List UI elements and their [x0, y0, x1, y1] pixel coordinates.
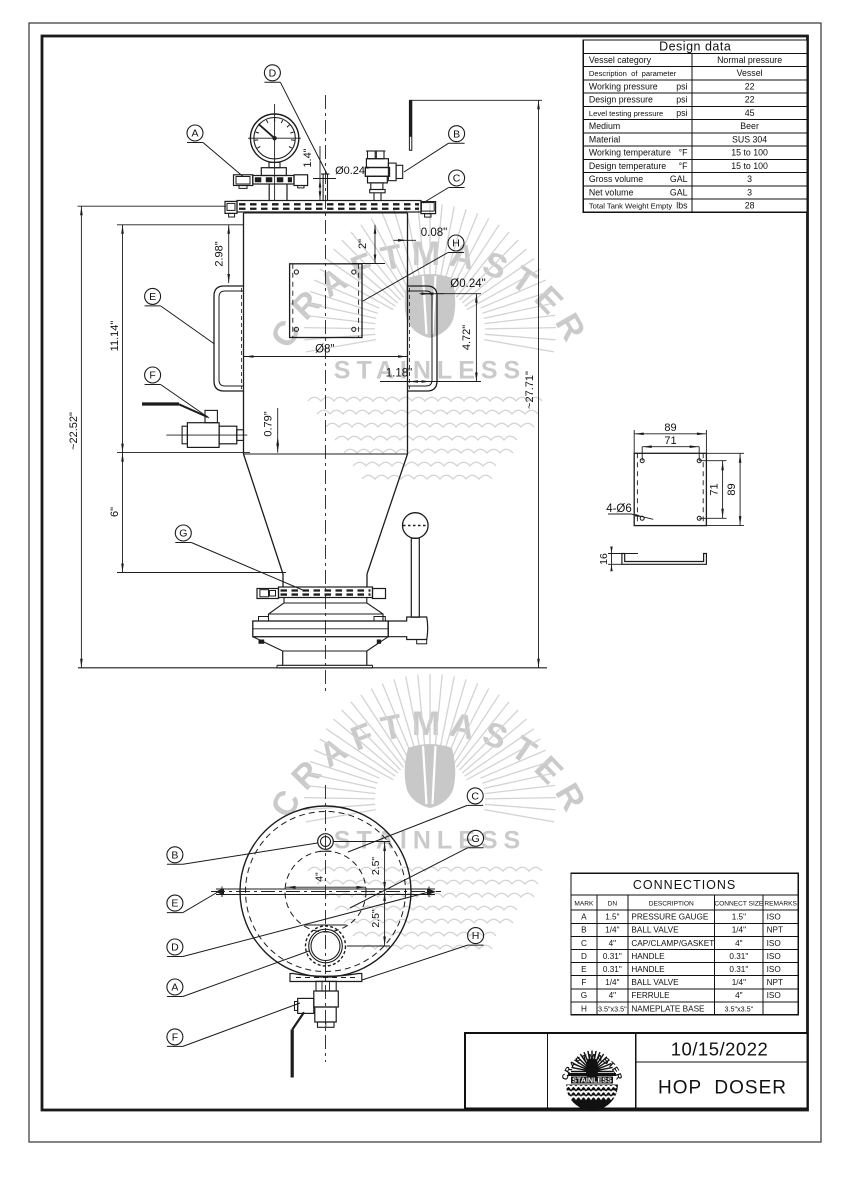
svg-text:G: G	[179, 528, 187, 540]
left handle plan view	[216, 888, 435, 890]
svg-text:GAL: GAL	[670, 187, 688, 197]
svg-text:ISO: ISO	[767, 952, 781, 961]
svg-text:1/4": 1/4"	[732, 978, 746, 987]
lid clamp right bracket	[421, 202, 436, 214]
dimension 2.5 inch lower	[384, 892, 386, 947]
svg-text:H: H	[472, 930, 480, 942]
svg-text:Ø0.24": Ø0.24"	[335, 165, 369, 177]
valve inlet flare	[269, 598, 384, 622]
pressure gauge A dial	[250, 114, 298, 162]
front view vertical centerline	[325, 95, 327, 692]
svg-text:Beer: Beer	[740, 121, 759, 131]
ball valve F top mount	[205, 410, 217, 422]
left handle E	[214, 286, 244, 391]
butterfly valve flange body	[253, 621, 388, 637]
svg-text:Gross volume: Gross volume	[589, 174, 643, 184]
nameplate bracket edge view	[290, 974, 362, 982]
svg-text:~27.71": ~27.71"	[524, 371, 536, 409]
svg-text:GAL: GAL	[670, 174, 688, 184]
svg-text:Material: Material	[589, 134, 620, 144]
label H nameplate	[448, 235, 464, 251]
svg-text:Vessel: Vessel	[737, 68, 763, 78]
svg-text:71: 71	[664, 435, 676, 447]
svg-text:CAP/CLAMP/GASKET: CAP/CLAMP/GASKET	[631, 939, 714, 948]
vessel shell bottom weld line	[244, 453, 408, 455]
svg-text:HOP DOSER: HOP DOSER	[658, 1078, 787, 1099]
svg-text:15 to 100: 15 to 100	[731, 161, 768, 171]
valve lever elbow	[388, 617, 428, 640]
dimension 11.14 inch	[122, 225, 124, 453]
svg-text:Level testing pressure: Level testing pressure	[589, 109, 663, 118]
svg-text:6": 6"	[109, 507, 121, 517]
dimension diameter 8 inch	[244, 356, 407, 358]
vessel shell wall right	[407, 213, 409, 454]
dimension 0.24 inch handle tube	[420, 293, 444, 295]
svg-text:1.4": 1.4"	[302, 148, 314, 167]
svg-text:NPT: NPT	[767, 926, 783, 935]
extension line valve B handle top	[409, 99, 542, 101]
outlet clamp left bolt bracket	[257, 589, 279, 599]
dimension 6 inch	[122, 453, 124, 573]
lid clamp band C	[237, 201, 421, 213]
dimension 4 inch opening	[286, 886, 366, 888]
outlet ferrule 4 inch circle	[285, 851, 366, 932]
svg-text:BALL VALVE: BALL VALVE	[631, 926, 679, 935]
nameplate holes 4x dia6	[640, 459, 644, 463]
gauge needle	[259, 124, 275, 138]
label D pipe nipple	[264, 65, 280, 81]
svg-text:D: D	[581, 952, 587, 961]
dimension 71 top	[642, 446, 699, 448]
dimension 2.98 inch	[228, 225, 230, 283]
svg-text:1.5": 1.5"	[732, 913, 746, 922]
svg-text:ISO: ISO	[767, 913, 781, 922]
svg-text:3.5"x3.5": 3.5"x3.5"	[598, 1004, 627, 1013]
svg-text:STAINLESS: STAINLESS	[334, 357, 526, 385]
svg-text:2.98": 2.98"	[214, 241, 226, 266]
ball valve B handle upright	[409, 100, 412, 136]
svg-text:2.5": 2.5"	[370, 909, 382, 928]
svg-text:Net volume: Net volume	[589, 187, 634, 197]
svg-text:~22.52": ~22.52"	[68, 412, 80, 450]
svg-text:F: F	[149, 370, 155, 382]
svg-text:C: C	[471, 791, 479, 803]
label E handle	[145, 288, 161, 304]
svg-text:HANDLE: HANDLE	[631, 952, 665, 961]
title block	[465, 1033, 808, 1109]
svg-text:Vessel category: Vessel category	[589, 55, 652, 65]
label B ball valve	[449, 126, 465, 142]
svg-text:NPT: NPT	[767, 978, 783, 987]
svg-text:0.08": 0.08"	[421, 227, 447, 239]
svg-text:Ø8": Ø8"	[315, 344, 334, 356]
gauge ferrule neck	[268, 184, 270, 200]
svg-text:C: C	[453, 173, 461, 185]
svg-text:4": 4"	[735, 939, 743, 948]
svg-text:F: F	[581, 978, 586, 987]
extension line flange level	[78, 205, 227, 207]
dimension 2 inch nameplate offset	[352, 263, 385, 265]
svg-text:3: 3	[747, 174, 752, 184]
outlet clamp right bracket	[373, 589, 386, 599]
svg-text:H: H	[581, 1004, 587, 1013]
extension line shell top	[117, 224, 243, 226]
svg-text:C: C	[581, 939, 587, 948]
svg-text:G: G	[581, 991, 587, 1000]
svg-text:Working pressure: Working pressure	[589, 81, 658, 91]
svg-text:15 to 100: 15 to 100	[731, 148, 768, 158]
right handle plan view	[427, 888, 436, 895]
svg-text:A: A	[171, 982, 178, 994]
ball valve B outlet port	[388, 163, 396, 181]
ball valve B body	[368, 151, 376, 159]
svg-text:E: E	[171, 898, 178, 910]
svg-text:B: B	[453, 128, 460, 140]
dimension 0.79 inch	[277, 408, 279, 453]
extension line cone bottom	[117, 572, 286, 574]
dimension 71 right	[699, 460, 726, 462]
svg-text:45: 45	[745, 108, 755, 118]
valve lever stem	[411, 538, 419, 617]
top view horizontal centerline	[211, 891, 441, 893]
svg-text:4": 4"	[609, 939, 617, 948]
ball valve F body	[187, 423, 219, 448]
design data table	[583, 40, 807, 212]
svg-text:3: 3	[747, 187, 752, 197]
svg-text:71: 71	[709, 483, 721, 495]
svg-text:28: 28	[745, 201, 755, 211]
butterfly valve lower cone	[253, 637, 388, 651]
svg-text:Description of parameter: Description of parameter	[589, 69, 677, 78]
svg-text:ISO: ISO	[767, 965, 781, 974]
vessel shell top weld line	[244, 212, 408, 214]
svg-text:psi: psi	[676, 95, 687, 105]
watermark craftmaster logo a	[263, 204, 596, 479]
port B small circle	[318, 834, 334, 850]
gauge clamp band	[253, 176, 294, 185]
nameplate base H mounted on shell	[290, 264, 362, 338]
dimension 0.08 inch wall thickness	[394, 239, 417, 241]
dimension 16 profile height	[608, 553, 638, 555]
svg-text:Total Tank Weight Empty: Total Tank Weight Empty	[589, 202, 672, 211]
butterfly valve top bolts	[259, 617, 269, 622]
vessel cone left	[244, 454, 284, 574]
ball valve B lower pipe	[373, 193, 375, 201]
right handle E	[408, 286, 438, 391]
vessel shell hidden circle	[246, 812, 406, 972]
svg-text:B: B	[171, 849, 178, 861]
gauge stem	[269, 162, 280, 167]
dimension 2.5 inch upper	[384, 842, 386, 892]
extension line valve F level	[117, 452, 250, 454]
svg-text:Design pressure: Design pressure	[589, 95, 653, 105]
pipe nipple D on lid	[322, 174, 324, 200]
svg-text:H: H	[452, 238, 460, 250]
svg-text:89: 89	[726, 483, 738, 495]
svg-text:REMARKS: REMARKS	[764, 901, 797, 908]
svg-text:psi: psi	[676, 108, 687, 118]
bottom ball valve F plan	[316, 981, 336, 991]
svg-text:3.5"x3.5": 3.5"x3.5"	[725, 1004, 754, 1013]
svg-text:D: D	[269, 67, 277, 79]
dimension 1.18 inch handle offset	[380, 381, 444, 383]
svg-text:4-Ø6: 4-Ø6	[606, 503, 632, 515]
svg-text:SUS 304: SUS 304	[732, 134, 767, 144]
svg-text:HANDLE: HANDLE	[631, 965, 665, 974]
dimension 4.72 inch handle length	[475, 294, 477, 382]
svg-text:°F: °F	[679, 161, 689, 171]
svg-text:Design data: Design data	[659, 40, 731, 54]
label F top view	[167, 1029, 183, 1045]
port A gauge circle	[306, 926, 346, 966]
vessel shell wall left	[243, 213, 245, 454]
svg-text:STAINLESS: STAINLESS	[334, 827, 526, 855]
svg-text:E: E	[581, 965, 587, 974]
label G top view	[468, 830, 484, 846]
svg-text:STAINLESS: STAINLESS	[572, 1076, 612, 1085]
svg-text:1/4": 1/4"	[732, 926, 746, 935]
svg-text:22: 22	[745, 81, 755, 91]
lid clamp left bracket	[225, 201, 237, 213]
svg-text:Ø0.24": Ø0.24"	[450, 278, 485, 290]
svg-text:lbs: lbs	[676, 201, 688, 211]
svg-text:ISO: ISO	[767, 991, 781, 1000]
label H top view	[468, 928, 484, 944]
svg-text:D: D	[171, 942, 179, 954]
vessel cone outlet neck	[282, 574, 284, 587]
svg-text:ISO: ISO	[767, 939, 781, 948]
svg-text:11.14": 11.14"	[109, 321, 121, 352]
outlet clamp band G	[279, 587, 373, 598]
svg-text:89: 89	[664, 422, 676, 434]
svg-text:A: A	[581, 913, 587, 922]
gasket marks	[259, 640, 265, 644]
svg-text:10/15/2022: 10/15/2022	[671, 1039, 769, 1060]
svg-text:0.31": 0.31"	[729, 965, 748, 974]
svg-text:1/4": 1/4"	[605, 978, 619, 987]
svg-text:CONNECT SIZE: CONNECT SIZE	[714, 901, 764, 908]
dimension 89 right	[706, 452, 744, 454]
svg-text:0.31": 0.31"	[729, 952, 748, 961]
svg-text:psi: psi	[676, 81, 687, 91]
dimension 89 top	[633, 430, 635, 453]
label G outlet clamp	[175, 525, 191, 541]
title block logo	[559, 1051, 624, 1111]
svg-text:BALL VALVE: BALL VALVE	[631, 978, 679, 987]
svg-text:2": 2"	[357, 239, 369, 249]
gauge clamp left bracket	[234, 175, 253, 186]
svg-text:Design temperature: Design temperature	[589, 161, 666, 171]
svg-text:Normal pressure: Normal pressure	[717, 55, 782, 65]
valve lever ball knob	[403, 513, 429, 539]
svg-text:E: E	[149, 291, 156, 303]
svg-text:16: 16	[598, 553, 610, 565]
svg-text:DN: DN	[608, 901, 618, 908]
svg-text:B: B	[581, 926, 587, 935]
ground base line	[78, 667, 547, 669]
nameplate bend lines	[636, 453, 638, 525]
svg-text:0.31": 0.31"	[603, 952, 622, 961]
dimension ~22.52 inch overall	[80, 206, 82, 668]
svg-text:0.79": 0.79"	[263, 411, 275, 436]
svg-text:Working temperature: Working temperature	[589, 148, 671, 158]
svg-text:F: F	[172, 1032, 178, 1044]
svg-text:NAMEPLATE BASE: NAMEPLATE BASE	[631, 1004, 705, 1013]
svg-text:PRESSURE GAUGE: PRESSURE GAUGE	[631, 913, 708, 922]
svg-text:°F: °F	[679, 148, 689, 158]
top view vertical centerline	[325, 785, 327, 1062]
dimension 1.4 inch pipe height	[319, 146, 321, 200]
svg-text:1/4": 1/4"	[605, 926, 619, 935]
svg-text:0.31": 0.31"	[603, 965, 622, 974]
svg-text:G: G	[472, 833, 480, 845]
dimension ~27.71 inch overall height	[538, 100, 540, 668]
svg-text:MARK: MARK	[574, 901, 594, 908]
label E top view	[167, 895, 183, 911]
svg-text:4": 4"	[314, 872, 326, 882]
label C lid clamp	[449, 170, 465, 186]
svg-text:4": 4"	[735, 991, 743, 1000]
svg-text:4.72": 4.72"	[461, 325, 473, 350]
svg-text:1.5": 1.5"	[605, 913, 619, 922]
svg-text:1.18": 1.18"	[386, 368, 412, 380]
label B top view	[167, 847, 183, 863]
nameplate plate outline	[634, 453, 706, 525]
svg-text:22: 22	[745, 95, 755, 105]
label A pressure gauge	[187, 125, 203, 141]
watermark craftmaster logo b	[263, 674, 596, 949]
svg-text:Medium: Medium	[589, 121, 620, 131]
vessel cone right	[367, 454, 408, 574]
gauge clamp right bracket	[294, 175, 308, 186]
label C top view	[467, 788, 483, 804]
bottom ferrule	[282, 651, 284, 665]
svg-text:DESCRIPTION: DESCRIPTION	[649, 901, 694, 908]
ball valve F handle	[142, 402, 179, 405]
label F ball valve	[145, 367, 161, 383]
svg-text:A: A	[191, 128, 198, 140]
svg-text:4": 4"	[609, 991, 617, 1000]
svg-text:CONNECTIONS: CONNECTIONS	[633, 878, 736, 892]
label D top view	[167, 939, 183, 955]
svg-text:2.5": 2.5"	[370, 857, 382, 876]
gauge mount block	[261, 168, 286, 176]
connections table	[571, 873, 798, 1015]
vessel outer rim circle	[240, 806, 411, 977]
nameplate profile side view	[622, 554, 707, 565]
gauge crosshair	[248, 137, 301, 139]
label A top view	[167, 979, 183, 995]
ball valve F centerline	[166, 434, 247, 436]
bottom valve handle	[292, 1012, 304, 1029]
svg-text:FERRULE: FERRULE	[631, 991, 670, 1000]
